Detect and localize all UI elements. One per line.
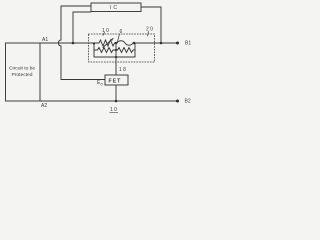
svg-text:Protected: Protected	[12, 72, 33, 78]
node A1 branch dot	[72, 42, 75, 45]
wire IC right down to B1 wire	[141, 7, 161, 43]
wire vertical down to FET gate line	[61, 46, 105, 80]
wire right leg of lower loop	[134, 43, 136, 57]
terminal B1 dot	[176, 42, 179, 45]
node loop bottom tap	[115, 56, 117, 58]
resistor R2 zigzag	[94, 48, 115, 53]
FET Q1 box	[105, 75, 128, 85]
fuse element 6 S-curve	[117, 41, 133, 46]
IC U1 box	[91, 3, 141, 12]
node resistor midpoint	[115, 49, 117, 51]
svg-text:B1: B1	[185, 41, 191, 47]
wire drain from device to FET	[115, 57, 117, 75]
leader for label 6	[118, 34, 120, 42]
svg-text:A2: A2	[41, 103, 47, 109]
terminal B2 dot	[176, 100, 179, 103]
leader for label 20	[148, 32, 149, 37]
svg-text:Circuit to be: Circuit to be	[9, 66, 35, 72]
wire bottom of lower loop	[94, 56, 135, 58]
svg-text:B2: B2	[185, 99, 191, 105]
svg-text:IC: IC	[110, 5, 119, 11]
wire left leg of lower loop	[93, 43, 95, 57]
wire middle tap from top path through loop	[115, 43, 117, 57]
protected circuit box	[6, 43, 41, 101]
node B1 junction	[160, 42, 163, 45]
leader for label 10	[103, 32, 105, 36]
crossover hop at A1 wire	[58, 40, 61, 46]
node fuse right junction	[133, 42, 135, 44]
node varistor/fuse junction	[115, 42, 117, 44]
wire A1 from protected box to device	[40, 42, 97, 44]
svg-text:A1: A1	[42, 37, 48, 43]
svg-text:FET: FET	[109, 79, 122, 85]
wire source from FET to A2 wire	[115, 85, 117, 101]
wire IC left upper to vertical	[61, 6, 91, 40]
device enclosure 10 dashed box	[89, 34, 155, 62]
wire top path inside device to B1 terminal	[115, 42, 117, 44]
svg-text:1 0: 1 0	[102, 28, 109, 34]
wire A2 from protected box to B2 terminal	[40, 100, 177, 102]
varistor R1 zigzag with arrow	[97, 40, 115, 46]
wire IC left lower to node on A1 wire	[73, 12, 91, 43]
resistor R3 zigzag	[115, 48, 135, 53]
node source junction	[115, 100, 118, 103]
node left leg top	[93, 42, 95, 44]
svg-text:1 8: 1 8	[119, 67, 126, 73]
svg-text:6: 6	[120, 29, 123, 35]
svg-text:0: 0	[101, 82, 104, 87]
svg-text:2 0: 2 0	[146, 27, 153, 33]
